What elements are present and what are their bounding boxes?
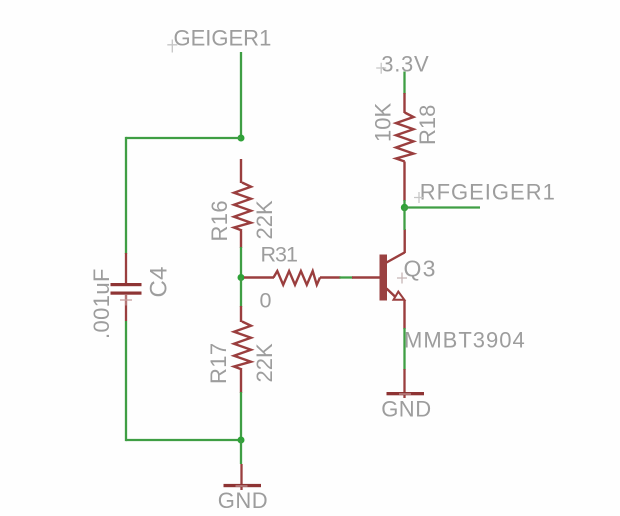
resistor R18	[396, 93, 414, 201]
svg-text:GND: GND	[381, 396, 431, 421]
wire collector green segment	[403, 208, 405, 231]
transistor Q3	[380, 229, 405, 329]
wire center junction to R17	[240, 278, 242, 308]
svg-text:GND: GND	[218, 488, 268, 513]
svg-text:22K: 22K	[252, 343, 277, 382]
resistor R31	[244, 271, 341, 285]
svg-text:.001uF: .001uF	[89, 268, 114, 339]
node junction bottom	[238, 437, 245, 444]
svg-text:RFGEIGER1: RFGEIGER1	[420, 180, 556, 205]
wire R31 to Q3 base	[340, 276, 354, 278]
ground GND right	[381, 369, 431, 421]
wire bottom horizontal to junction	[126, 439, 241, 441]
svg-text:GEIGER1: GEIGER1	[174, 25, 272, 50]
svg-text:10K: 10K	[371, 103, 396, 142]
svg-text:0: 0	[260, 289, 272, 313]
wire 3.3V to R18	[403, 72, 405, 95]
wire R16 to center junction	[240, 247, 242, 278]
node junction center	[238, 274, 245, 281]
node junction top	[238, 135, 245, 142]
svg-text:R16: R16	[207, 200, 232, 242]
node junction RFGEIGER1	[401, 204, 408, 211]
power label 3.3V	[376, 51, 429, 76]
label Q3	[397, 256, 437, 284]
wire R18 to collector junction	[403, 200, 405, 208]
capacitor C4	[111, 253, 142, 321]
resistor R17	[234, 306, 251, 393]
svg-text:R17: R17	[206, 342, 231, 384]
wire RFGEIGER1 stub	[405, 206, 481, 208]
ground GND bottom	[218, 440, 268, 513]
wire left vertical lower	[125, 321, 127, 441]
net label RFGEIGER1	[414, 180, 556, 205]
svg-text:Q3: Q3	[404, 256, 437, 282]
svg-text:R18: R18	[415, 105, 440, 145]
resistor R16	[234, 159, 251, 248]
wire emitter green segment	[403, 328, 405, 370]
svg-text:MMBT3904: MMBT3904	[404, 327, 526, 352]
transistor Q3 base lead	[352, 276, 380, 278]
svg-text:R31: R31	[261, 242, 297, 266]
svg-text:22K: 22K	[252, 200, 277, 239]
wire GEIGER1 vertical	[240, 52, 242, 138]
wire left vertical upper	[125, 137, 127, 254]
svg-text:C4: C4	[146, 266, 173, 297]
net label GEIGER1	[167, 25, 271, 52]
wire top horizontal to left branch	[126, 137, 241, 139]
wire R17 to bottom junction	[240, 392, 242, 441]
